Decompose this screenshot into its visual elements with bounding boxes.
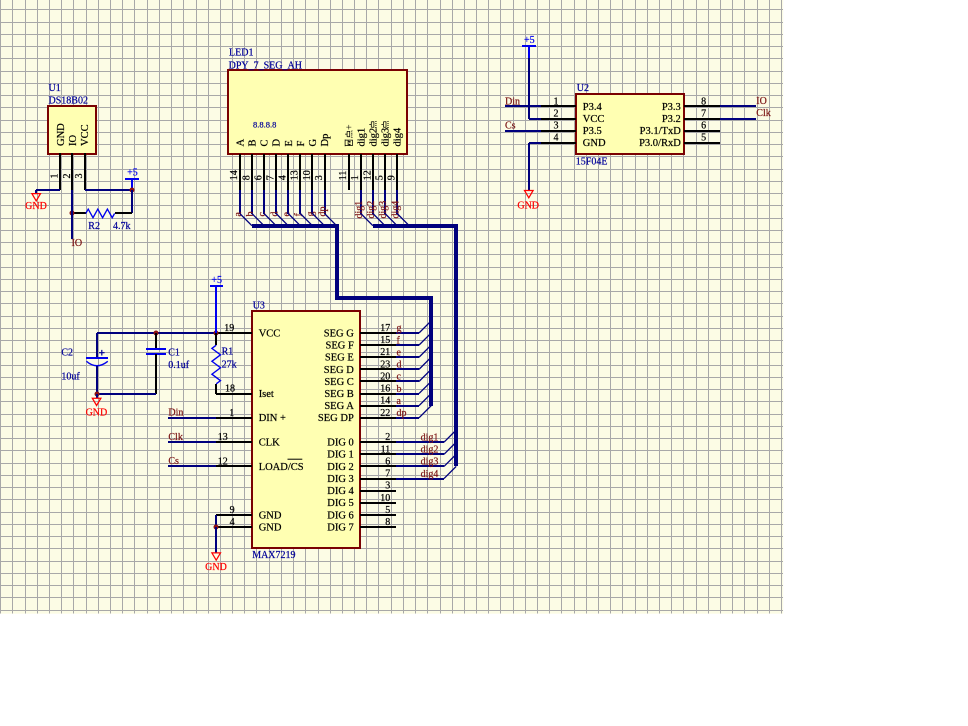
ic U1 DS18B02 body — [48, 106, 96, 154]
wire Din to U3 pin1 — [168, 417, 216, 419]
svg-text:Iset: Iset — [259, 389, 274, 400]
svg-text:B: B — [248, 139, 259, 146]
svg-text:GND: GND — [259, 522, 282, 533]
svg-text:4.7k: 4.7k — [113, 221, 131, 232]
wire Cs to U3 pin12 — [168, 465, 216, 467]
svg-text:+: + — [344, 124, 355, 130]
svg-text:E: E — [284, 140, 295, 146]
U3 right pins — [360, 332, 396, 334]
svg-text:5: 5 — [385, 505, 390, 516]
svg-text:22: 22 — [380, 408, 390, 419]
svg-text:18: 18 — [225, 384, 235, 395]
svg-text:+5: +5 — [127, 167, 138, 178]
capacitor C1 0.1uf — [155, 333, 157, 349]
wires U3 DIG0-3 to bus — [396, 441, 444, 443]
svg-text:SEG B: SEG B — [324, 389, 353, 400]
svg-text:SEG F: SEG F — [325, 341, 353, 352]
digit bus — [373, 226, 456, 466]
sheet background with grid — [0, 0, 783, 614]
svg-text:27k: 27k — [222, 359, 237, 370]
svg-text:13: 13 — [218, 432, 228, 443]
ic U2 15F04E body — [576, 94, 684, 154]
C2 plus sign — [99, 350, 105, 356]
bus entries U3 DIG — [444, 430, 456, 442]
svg-text:dig2: dig2 — [369, 128, 380, 147]
ground stub U1 — [35, 190, 37, 194]
svg-text:3: 3 — [385, 481, 390, 492]
svg-text:1: 1 — [50, 174, 61, 179]
svg-text:SEG DP: SEG DP — [318, 413, 354, 424]
LED1 dig2 dig3 CJK suffixes — [369, 121, 376, 128]
svg-text:G: G — [308, 139, 319, 147]
svg-text:17: 17 — [380, 323, 390, 334]
capacitor C2 10uf electrolytic — [96, 333, 98, 358]
svg-text:LED1: LED1 — [229, 48, 253, 59]
svg-text:DIN +: DIN + — [259, 413, 286, 424]
svg-text:10: 10 — [380, 493, 390, 504]
svg-text:Din: Din — [505, 96, 520, 107]
svg-text:GND: GND — [25, 201, 47, 212]
svg-text:SEG C: SEG C — [324, 377, 353, 388]
svg-text:GND: GND — [56, 123, 67, 146]
svg-text:b: b — [397, 384, 402, 395]
svg-text:6: 6 — [253, 175, 264, 180]
svg-text:10: 10 — [302, 170, 313, 180]
svg-text:1: 1 — [350, 175, 361, 180]
svg-text:DIG 5: DIG 5 — [327, 498, 354, 509]
ground symbol GND (C2) — [92, 398, 101, 405]
wires U3 SEG to bus — [396, 332, 419, 334]
svg-text:Clk: Clk — [756, 108, 770, 119]
segment bus — [252, 226, 431, 406]
ic U3 MAX7219 body — [252, 311, 360, 548]
LED1 digit wires down — [360, 190, 362, 214]
svg-text:11: 11 — [338, 171, 349, 181]
svg-text:C1: C1 — [168, 348, 180, 359]
LED1 colon pin name CJK — [344, 124, 355, 146]
node junction +5/VCC/R2 — [130, 188, 135, 193]
wire U3 ground down — [215, 527, 217, 553]
svg-text:1: 1 — [554, 96, 559, 107]
svg-text:SEG D: SEG D — [324, 365, 354, 376]
svg-text:7: 7 — [266, 175, 277, 180]
svg-text:P3.4: P3.4 — [583, 102, 603, 113]
power symbol +5 (U1) — [131, 179, 133, 190]
svg-text:dig3: dig3 — [421, 457, 439, 468]
svg-text:SEG A: SEG A — [324, 401, 354, 412]
svg-text:IO: IO — [68, 135, 79, 146]
svg-text:VCC: VCC — [259, 328, 281, 339]
svg-text:21: 21 — [380, 347, 390, 358]
svg-text:12: 12 — [218, 456, 228, 467]
svg-text:12: 12 — [362, 170, 373, 180]
svg-text:15F04E: 15F04E — [576, 156, 608, 167]
svg-text:DIG 2: DIG 2 — [327, 462, 354, 473]
node junction U3 ground — [214, 525, 219, 530]
wire U2 pin7 Clk — [720, 118, 756, 120]
svg-text:CLK: CLK — [259, 438, 280, 449]
node junction C2 bottom — [95, 392, 100, 397]
svg-text:Dp: Dp — [320, 134, 331, 147]
svg-text:14: 14 — [229, 170, 240, 180]
svg-text:DIG 0: DIG 0 — [327, 438, 354, 449]
bus entries LED1 digits — [361, 214, 373, 226]
svg-text:GND: GND — [583, 138, 606, 149]
svg-text:2: 2 — [554, 109, 559, 120]
node junction IO/R2 — [70, 211, 75, 216]
svg-text:dp: dp — [397, 408, 407, 419]
svg-text:19: 19 — [224, 323, 234, 334]
svg-text:U2: U2 — [577, 83, 589, 94]
svg-text:8: 8 — [241, 175, 252, 180]
wire Cs to U2 pin3 — [505, 130, 541, 132]
svg-text:11: 11 — [381, 444, 391, 455]
wire U2 pin4 to ground — [529, 142, 541, 144]
svg-text:a: a — [397, 396, 402, 407]
svg-text:DIG 1: DIG 1 — [327, 450, 354, 461]
svg-text:VCC: VCC — [583, 114, 605, 125]
svg-text:IO: IO — [756, 96, 767, 107]
wire C2 to C1 bottom — [97, 393, 156, 395]
svg-text:Din: Din — [168, 408, 183, 419]
svg-text:4: 4 — [230, 517, 235, 528]
svg-text:5: 5 — [701, 133, 706, 144]
svg-text:3: 3 — [74, 174, 85, 179]
svg-text:C2: C2 — [61, 348, 73, 359]
svg-text:dig2: dig2 — [421, 445, 439, 456]
svg-text:g: g — [397, 323, 402, 334]
svg-text:LOAD/CS: LOAD/CS — [259, 462, 304, 473]
ground symbol GND (U2) — [525, 191, 534, 198]
svg-text:MAX7219: MAX7219 — [252, 550, 295, 561]
wire +5 down to U2 pin2 — [528, 58, 530, 119]
svg-text:dig4: dig4 — [421, 469, 439, 480]
svg-text:13: 13 — [290, 170, 301, 180]
svg-text:P3.1/TxD: P3.1/TxD — [640, 126, 682, 137]
svg-text:8: 8 — [701, 96, 706, 107]
svg-text:dig1: dig1 — [421, 432, 439, 443]
svg-text:3: 3 — [314, 175, 325, 180]
svg-text:0.1uf: 0.1uf — [168, 360, 190, 371]
svg-text:SEG G: SEG G — [324, 328, 354, 339]
svg-text:6: 6 — [385, 456, 390, 467]
display LED1 DPY_7_SEG_AH body — [228, 70, 407, 154]
svg-text:e: e — [397, 347, 402, 358]
power symbol +5 (U2) — [528, 46, 530, 58]
svg-text:P3.3: P3.3 — [662, 102, 681, 113]
svg-text:F: F — [296, 141, 307, 147]
svg-text:DS18B02: DS18B02 — [49, 96, 88, 107]
wire VCC rail to U3 pin19 — [97, 332, 216, 334]
svg-text:SEG E: SEG E — [325, 353, 354, 364]
LED1 segment wires down — [239, 190, 241, 214]
svg-text:U3: U3 — [253, 300, 265, 311]
svg-text:DIG 7: DIG 7 — [327, 522, 354, 533]
svg-text:9: 9 — [230, 505, 235, 516]
svg-text:P3.2: P3.2 — [662, 114, 681, 125]
svg-text:8: 8 — [385, 517, 390, 528]
svg-text:4: 4 — [554, 133, 559, 144]
svg-text:d: d — [397, 360, 402, 371]
svg-text:15: 15 — [380, 335, 390, 346]
svg-text:23: 23 — [380, 359, 390, 370]
svg-text:c: c — [397, 372, 402, 383]
svg-text:4: 4 — [278, 175, 289, 180]
resistor R2 4.7k — [72, 212, 86, 214]
svg-text:P3.5: P3.5 — [583, 126, 602, 137]
svg-text:16: 16 — [380, 384, 390, 395]
svg-text:dig1: dig1 — [356, 128, 367, 147]
svg-text:P3.0/RxD: P3.0/RxD — [639, 138, 681, 149]
bus entries LED1 segments — [240, 214, 252, 226]
wire R2 right vertical — [131, 190, 133, 213]
svg-text:U1: U1 — [49, 83, 61, 94]
svg-text:GND: GND — [86, 408, 108, 419]
svg-text:3: 3 — [554, 121, 559, 132]
svg-text:10uf: 10uf — [61, 371, 80, 382]
wire U2 pin8 IO — [720, 105, 756, 107]
wire Din to U2 pin1 — [505, 105, 541, 107]
svg-text:5: 5 — [374, 175, 385, 180]
wire U1 pin2 IO net — [71, 190, 73, 239]
svg-text:14: 14 — [380, 396, 390, 407]
U2 right pins 8-5 — [684, 105, 720, 107]
U2 left pins 1-4 — [541, 105, 576, 107]
svg-text:A: A — [235, 139, 246, 147]
svg-text:DIG 4: DIG 4 — [327, 486, 354, 497]
svg-text:2: 2 — [385, 432, 390, 443]
svg-text:R1: R1 — [222, 347, 234, 358]
bus entries U3 SEG — [419, 321, 431, 333]
U1 pins 1 2 3 — [59, 153, 61, 190]
svg-text:dp: dp — [318, 207, 329, 217]
svg-text:dig3: dig3 — [381, 128, 392, 147]
LED1 pins — [239, 154, 241, 190]
resistor R1 27k — [215, 333, 217, 345]
svg-text:DIG 6: DIG 6 — [327, 510, 354, 521]
ground stub C2 — [96, 394, 98, 398]
svg-text:20: 20 — [380, 371, 390, 382]
svg-text:DPY_7_SEG_AH: DPY_7_SEG_AH — [229, 60, 302, 71]
svg-text:dig4: dig4 — [393, 127, 404, 146]
svg-text:7: 7 — [701, 109, 706, 120]
wire Clk to U3 pin13 — [168, 441, 216, 443]
svg-text:Cs: Cs — [168, 456, 179, 467]
svg-text:GND: GND — [517, 201, 539, 212]
node junction R1 top / pin19 — [214, 331, 219, 336]
svg-text:Cs: Cs — [505, 121, 516, 132]
wire U1 pin1 to ground — [36, 189, 60, 191]
U3 left pins — [216, 332, 252, 334]
svg-text:7: 7 — [385, 469, 390, 480]
svg-text:9: 9 — [387, 175, 398, 180]
svg-text:6: 6 — [701, 121, 706, 132]
wire U3 pin9 elbow to pin4 — [215, 515, 217, 527]
svg-text:GND: GND — [205, 562, 227, 573]
ground symbol GND (U1) — [32, 194, 41, 201]
svg-text:1: 1 — [229, 408, 234, 419]
svg-text:+5: +5 — [524, 35, 535, 46]
power symbol +5 (U3) — [215, 286, 217, 333]
svg-text:2: 2 — [62, 174, 73, 179]
svg-text:Clk: Clk — [168, 432, 182, 443]
svg-text:D: D — [272, 139, 283, 147]
svg-text:C: C — [260, 139, 271, 146]
wire U1 pin3 to +5 node — [85, 189, 132, 191]
ground symbol GND (U3) — [212, 553, 221, 560]
svg-text:8.8.8.8: 8.8.8.8 — [253, 120, 276, 130]
svg-text:R2: R2 — [88, 221, 100, 232]
svg-text:+5: +5 — [211, 275, 222, 286]
svg-text:IO: IO — [72, 238, 83, 249]
svg-text:GND: GND — [259, 510, 282, 521]
svg-text:DIG 3: DIG 3 — [327, 474, 354, 485]
node junction C1 top — [154, 331, 159, 336]
svg-text:VCC: VCC — [80, 124, 91, 146]
